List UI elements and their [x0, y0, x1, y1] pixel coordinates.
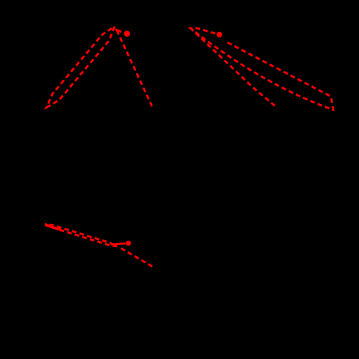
trajectory 1 end dot [124, 31, 130, 37]
trajectory 3 loop tip solid segment [45, 225, 60, 230]
trajectory 3 connector [111, 243, 126, 244]
trajectory 2 end dot [217, 32, 223, 38]
trajectory 1 connector [115, 29, 121, 32]
trajectory 1 incoming line [116, 28, 153, 107]
trajectory 2 loop (narrow dashed lasso, top-right) [191, 28, 334, 110]
trajectory 1 loop (narrow dashed lasso, top-left) [47, 27, 115, 108]
trajectory 2 incoming line [192, 30, 275, 106]
trajectory 3 end dot [126, 241, 131, 246]
trajectory 3 loop (very narrow dashed lasso, middle-left) [45, 224, 117, 246]
trajectory 3 incoming line [119, 247, 153, 267]
